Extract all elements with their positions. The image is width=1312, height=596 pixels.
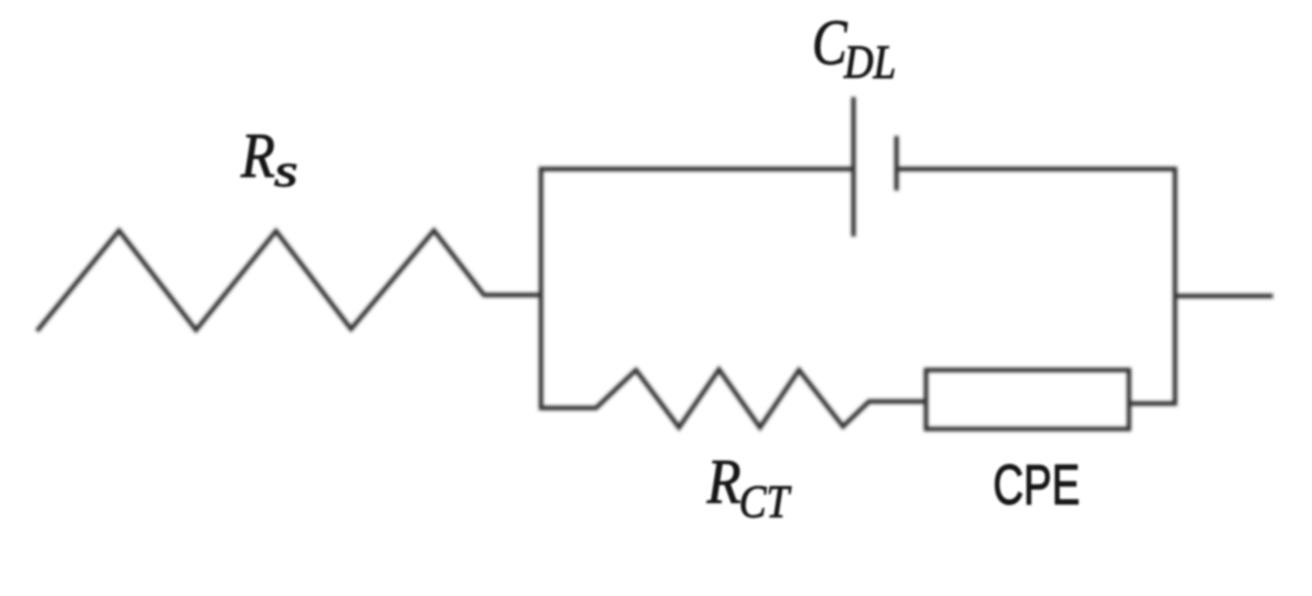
svg-text:s: s bbox=[274, 145, 298, 197]
svg-text:R: R bbox=[706, 446, 741, 517]
svg-text:CPE: CPE bbox=[993, 453, 1080, 517]
svg-text:DL: DL bbox=[843, 36, 896, 89]
svg-text:CT: CT bbox=[739, 476, 791, 528]
svg-text:C: C bbox=[812, 7, 848, 79]
svg-text:R: R bbox=[240, 120, 275, 191]
